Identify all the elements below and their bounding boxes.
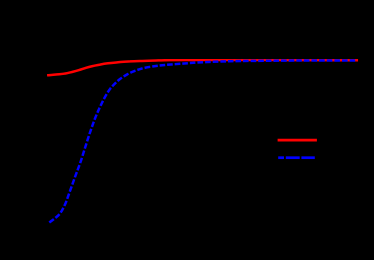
legend sample: red solid line	[278, 139, 317, 142]
blue dashed curve (series 2)	[49, 60, 357, 222]
legend sample: blue dashed line	[278, 156, 315, 159]
red solid curve (series 1)	[48, 60, 357, 75]
